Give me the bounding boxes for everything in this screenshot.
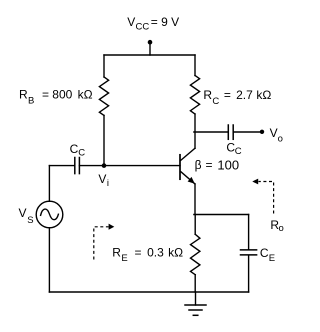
svg-text:=: = [224, 88, 231, 102]
svg-text:V: V [98, 172, 106, 186]
svg-text:kΩ: kΩ [168, 245, 183, 259]
svg-text:i: i [107, 178, 109, 189]
svg-text:=: = [42, 88, 49, 102]
svg-text:V: V [19, 206, 27, 220]
svg-text:=: = [206, 158, 213, 172]
svg-text:R: R [112, 245, 121, 259]
svg-text:800: 800 [52, 88, 72, 102]
svg-text:C: C [212, 96, 219, 107]
svg-text:CC: CC [136, 21, 150, 32]
svg-text:2.7: 2.7 [236, 88, 253, 102]
svg-text:E: E [269, 253, 275, 264]
svg-text:C: C [78, 148, 85, 159]
svg-text:C: C [260, 246, 269, 260]
svg-text:o: o [279, 223, 284, 234]
svg-text:V: V [270, 126, 278, 140]
svg-text:E: E [121, 253, 127, 264]
svg-text:β: β [195, 158, 202, 172]
svg-text:=: = [135, 245, 142, 259]
svg-text:C: C [235, 146, 242, 157]
svg-text:100: 100 [217, 157, 239, 172]
svg-text:o: o [278, 133, 283, 144]
svg-text:B: B [28, 95, 34, 106]
svg-text:kΩ: kΩ [78, 88, 93, 102]
svg-text:= 9 V: = 9 V [151, 15, 179, 29]
svg-text:0.3: 0.3 [147, 245, 164, 259]
svg-text:R: R [19, 88, 28, 102]
svg-text:S: S [27, 215, 33, 226]
svg-text:R: R [203, 88, 212, 102]
svg-text:kΩ: kΩ [256, 88, 271, 102]
svg-text:V: V [127, 15, 135, 29]
